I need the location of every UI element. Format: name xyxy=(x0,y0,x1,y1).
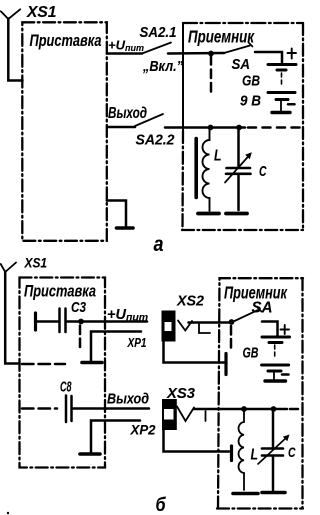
ferrite rod of magnetic antenna (fig a) xyxy=(194,139,198,198)
chassis terminal of Pristavka (fig a) xyxy=(107,201,133,229)
dashed continuation below junction (fig b) xyxy=(230,326,233,351)
junction node C top (fig b) xyxy=(271,406,277,412)
terminal bar XS3 return xyxy=(230,446,233,461)
wire XS3 to tank (fig b) xyxy=(194,408,287,411)
wire SA2.2 to tank xyxy=(165,126,245,129)
capacitor C variable (fig a) xyxy=(226,129,251,210)
dashed tank rail continuation (fig b) xyxy=(290,408,303,411)
dashed tank rail continuation xyxy=(248,126,303,129)
switch SA tick xyxy=(249,43,253,47)
terminal bar L bottom (fig b) xyxy=(233,492,258,496)
svg-text:а: а xyxy=(154,232,164,256)
chassis bar ground 2 (fig b) xyxy=(80,452,100,456)
inductor L (fig b) xyxy=(239,410,244,490)
wire SA to battery xyxy=(255,52,282,63)
junction node after C3 xyxy=(78,319,84,325)
svg-text:L: L xyxy=(251,447,259,464)
arrow of variable capacitor (fig b) xyxy=(258,435,290,465)
svg-text:Выход: Выход xyxy=(108,105,147,122)
capacitor C variable (fig b) xyxy=(262,410,283,490)
label - (fig a battery) xyxy=(288,103,295,106)
svg-text:Приставка: Приставка xyxy=(30,31,102,50)
battery GB (fig a) xyxy=(268,65,296,113)
wire +Upit from box to SA2.1 xyxy=(107,52,142,55)
box Priemnik (fig b) xyxy=(218,278,303,508)
terminal bar L bottom (fig a) xyxy=(198,212,219,216)
svg-text:C: C xyxy=(288,444,296,460)
socket contact V (XS3) xyxy=(177,407,194,422)
svg-text:ХS2: ХS2 xyxy=(176,293,205,310)
junction node (power rail fig a) xyxy=(208,51,214,57)
svg-text:SA: SA xyxy=(232,57,251,73)
socket contact V (XS2) xyxy=(178,321,192,331)
wire XS2 to SA junction (fig b) xyxy=(189,321,232,324)
svg-text:С8: С8 xyxy=(60,379,72,396)
svg-text:+Uпит: +Uпит xyxy=(107,307,148,324)
dashed internal antenna line (fig b) xyxy=(22,363,65,366)
terminal bar C3 left (fig b) xyxy=(34,313,37,330)
capacitor C8 (fig b) xyxy=(66,396,149,423)
XS2 shell return wire xyxy=(164,341,225,363)
svg-text:Приставка: Приставка xyxy=(24,282,96,301)
terminal bar C bottom (fig b) xyxy=(262,491,285,495)
svg-text:ХР1: ХР1 xyxy=(127,335,147,350)
inductor L (fig a) xyxy=(203,129,210,211)
switch SA blade (fig a) xyxy=(224,46,250,54)
arrow of variable capacitor (fig a) xyxy=(225,152,252,182)
svg-text:ХР2: ХР2 xyxy=(130,422,156,438)
return wire XP2 (fig b bottom) xyxy=(91,421,140,453)
svg-text:С3: С3 xyxy=(71,299,87,316)
break contact of XS3 xyxy=(205,411,207,421)
connector XS3 plug body xyxy=(162,399,177,430)
break contact of XS2 xyxy=(199,324,210,333)
label + (fig a battery) xyxy=(288,49,297,59)
dashed internal line to C8 xyxy=(22,407,57,410)
terminal bar XS2 return xyxy=(224,354,227,375)
antenna WA1 (fig b) xyxy=(1,263,20,364)
capacitor C3 (fig b) xyxy=(37,309,147,333)
switch SA2.1 blade xyxy=(142,43,171,54)
battery GB (fig b) xyxy=(262,337,290,381)
wire SA to battery (fig b) xyxy=(262,322,278,336)
svg-text:Приемник: Приемник xyxy=(224,283,288,303)
junction node L top (fig b) xyxy=(241,406,247,412)
box Priemnik (fig a) xyxy=(182,23,184,131)
box Pristavka (fig a) xyxy=(22,22,107,241)
svg-text:XS1: XS1 xyxy=(26,4,57,21)
switch SA tick (fig b) xyxy=(258,308,262,312)
junction node (fig b power) xyxy=(229,319,235,325)
terminal bar C bottom (fig a) xyxy=(226,212,247,216)
switch SA blade (fig b) xyxy=(235,310,259,321)
dashed continuation below power junction xyxy=(210,56,213,95)
svg-text:GB: GB xyxy=(242,74,260,90)
box Pristavka (fig b) xyxy=(20,278,106,468)
junction node L top (fig a) xyxy=(208,125,214,131)
svg-text:б: б xyxy=(156,494,167,515)
svg-text:9 В: 9 В xyxy=(240,94,261,110)
XS3 shell return wire xyxy=(164,430,230,452)
wire Vyhod from box xyxy=(107,126,135,129)
svg-text:L: L xyxy=(214,148,222,165)
return wire XP1 (fig b top) xyxy=(91,332,141,361)
chassis bar ground 1 (fig b) xyxy=(82,361,102,365)
svg-text:Выход: Выход xyxy=(107,391,149,408)
dashed continuation below C3 junction xyxy=(79,326,82,349)
svg-text:SA2.2: SA2.2 xyxy=(136,133,175,149)
scan speck xyxy=(7,512,9,514)
svg-text:XS1: XS1 xyxy=(24,255,48,271)
switch SA2.2 blade xyxy=(135,114,163,126)
svg-text:GB: GB xyxy=(243,346,259,362)
svg-text:C: C xyxy=(259,163,267,180)
svg-text:SA2.1: SA2.1 xyxy=(140,25,177,41)
svg-text:„Вкл.”: „Вкл.” xyxy=(142,58,183,75)
label - (fig b battery) xyxy=(282,373,289,376)
svg-text:Приемник: Приемник xyxy=(188,27,255,47)
antenna WA1 (fig a) xyxy=(1,9,23,80)
wire SA2.1 to SA junction xyxy=(168,52,224,55)
connector XS2 plug body xyxy=(162,311,176,342)
junction node C top (fig a) xyxy=(236,125,242,131)
label + (fig b battery) xyxy=(281,325,290,334)
